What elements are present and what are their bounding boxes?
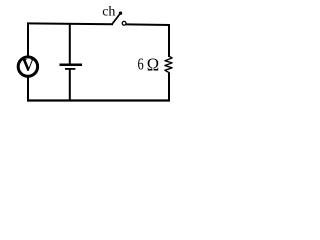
- switch ch lever: [112, 12, 122, 24]
- battery cell branch upper wire: [69, 23, 71, 65]
- battery cell branch lower wire: [69, 69, 71, 101]
- switch ch contact circle: [122, 21, 126, 25]
- wire left upper: [27, 23, 29, 57]
- voltmeter V: [18, 55, 37, 76]
- wire right upper: [168, 24, 170, 57]
- label 6 ohm: [138, 55, 160, 75]
- svg-text:ch: ch: [102, 5, 115, 20]
- wire bottom: [27, 99, 170, 101]
- wire left lower: [27, 77, 29, 102]
- svg-text:V: V: [22, 55, 35, 75]
- battery cell short plate: [65, 68, 75, 70]
- resistor 6 ohm zigzag: [165, 57, 172, 73]
- svg-text:Ω: Ω: [147, 55, 159, 75]
- battery cell long plate: [60, 63, 83, 66]
- wire right lower: [168, 73, 170, 102]
- wire top-left segment: [27, 22, 113, 25]
- svg-text:6: 6: [138, 55, 144, 74]
- wire top-right segment: [126, 23, 170, 26]
